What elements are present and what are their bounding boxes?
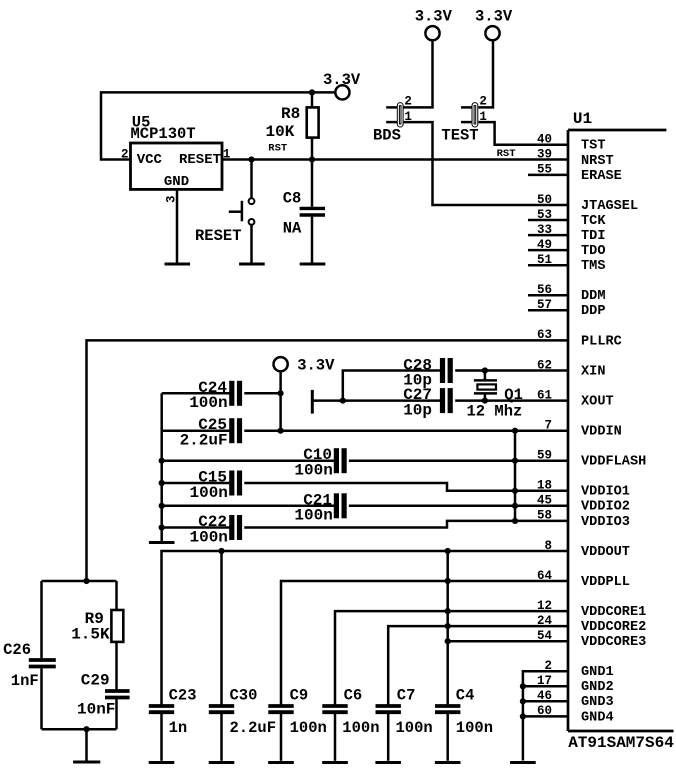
- wire VDDCORE vertical down to C4: [446, 551, 449, 705]
- wire TEST pin1 to chip TST pin 40: [478, 122, 568, 145]
- svg-text:50: 50: [537, 193, 552, 207]
- capacitor C29 10nF: [77, 642, 130, 729]
- jumper BDS: [373, 94, 412, 144]
- svg-text:C29: C29: [81, 672, 110, 690]
- ground (GND pins): [510, 761, 536, 764]
- unconnected pin stubs (ERASE,TCK,TDI,TDO,TMS,DDM,DDP): [528, 175, 568, 310]
- svg-text:TST: TST: [581, 139, 605, 154]
- power 3.3V (BDS): [415, 8, 453, 41]
- wire VCC: 3.3V rail to U5 VCC pin 2: [101, 92, 312, 159]
- svg-text:AT91SAM7S64: AT91SAM7S64: [568, 734, 674, 752]
- IC U1 AT91SAM7S64: [537, 110, 674, 752]
- svg-text:RESET: RESET: [195, 227, 242, 245]
- svg-text:100n: 100n: [189, 484, 227, 502]
- svg-text:GND: GND: [164, 174, 189, 190]
- svg-text:100n: 100n: [396, 719, 433, 737]
- crystal Q1 12 Mhz: [467, 371, 523, 421]
- wire GND1-GND4: chip pins 2,17,46,60 to ground: [523, 671, 568, 760]
- capacitor C22 100n / wire VDDIO3 to chip pin 58: [162, 513, 568, 546]
- svg-text:VDDPLL: VDDPLL: [581, 575, 630, 590]
- capacitor C7 100n: [376, 687, 433, 761]
- svg-text:2: 2: [404, 94, 412, 108]
- capacitor C4 100n: [435, 687, 493, 761]
- wire VDDCORE1: chip pin 12 to C6: [335, 611, 568, 704]
- wire VDDPLL: chip pin 64 to C9: [281, 581, 568, 705]
- svg-text:RESET: RESET: [179, 152, 221, 168]
- capacitor C30 2.2uF: [209, 551, 276, 761]
- wire RC filter top rail: [42, 580, 117, 583]
- ground (RC filter): [73, 761, 100, 764]
- junction (VDDCORE vertical / VDDCORE3): [445, 638, 451, 644]
- capacitor C6 100n: [322, 687, 379, 761]
- ground (RESET button): [239, 263, 265, 266]
- svg-text:RST: RST: [268, 143, 287, 155]
- svg-text:39: 39: [537, 148, 552, 162]
- svg-text:GND2: GND2: [581, 680, 614, 695]
- svg-text:MCP130T: MCP130T: [131, 125, 196, 143]
- svg-text:100n: 100n: [189, 394, 227, 412]
- junction (VDDCORE vertical / VDDCORE1): [445, 608, 451, 614]
- junction (R8 / C8): [309, 156, 315, 162]
- capacitor C27 10p: [403, 386, 450, 419]
- svg-text:ERASE: ERASE: [581, 169, 622, 184]
- wire XIN: chip pin 62 to C28/crystal: [343, 371, 568, 401]
- svg-text:100n: 100n: [294, 507, 332, 525]
- capacitor C8 NA: [283, 160, 325, 263]
- junction (RC bottom / ground): [83, 726, 89, 732]
- wire PLLRC: chip pin 63 to RC filter: [87, 340, 569, 581]
- junction (XIN / crystal): [482, 367, 488, 373]
- junction (VDDFLASH / VDD vertical): [512, 458, 518, 464]
- wire XOUT: chip pin 61 to C27/crystal: [312, 399, 568, 402]
- svg-text:VDDIO2: VDDIO2: [581, 500, 630, 515]
- svg-text:DDP: DDP: [581, 304, 605, 319]
- wire GND bus (left of decoupling caps): [160, 393, 163, 541]
- junction (C25 / 3.3V): [278, 428, 284, 434]
- junction (reset button): [248, 156, 254, 162]
- junction (C24 / 3.3V): [278, 390, 284, 396]
- svg-text:GND3: GND3: [581, 695, 614, 710]
- svg-text:VDDIO1: VDDIO1: [581, 485, 630, 500]
- junction (GND3): [520, 698, 526, 704]
- svg-text:2: 2: [121, 148, 129, 162]
- svg-text:TDI: TDI: [581, 229, 605, 244]
- svg-text:3.3V: 3.3V: [415, 8, 453, 26]
- ground (C8): [300, 263, 326, 266]
- wire 3.3V down to C24/C25 rows: [279, 371, 282, 431]
- junction (VDDCORE vertical / VDDPLL): [445, 578, 451, 584]
- junction (XOUT / C27-C28 ground leg): [340, 398, 346, 404]
- wire VDD vertical (ties VDDIN..VDDIO3): [514, 431, 517, 521]
- svg-text:Q1: Q1: [504, 386, 523, 404]
- svg-text:100n: 100n: [189, 528, 227, 546]
- ground (C4): [435, 761, 461, 764]
- junction (R8 top / 3.3V rail): [309, 89, 315, 95]
- power 3.3V (TEST): [475, 8, 513, 41]
- capacitor C10 100n / wire VDDFLASH to chip pin 59: [162, 446, 568, 479]
- wire NRST net: U5 RESET pin to chip pin 39: [222, 158, 568, 161]
- svg-text:GND4: GND4: [581, 710, 614, 725]
- power 3.3V supply symbol (R8 top): [312, 71, 361, 100]
- svg-text:VDDCORE1: VDDCORE1: [581, 605, 646, 620]
- junction (VDDIO1 / VDD vertical): [512, 488, 518, 494]
- svg-text:C30: C30: [230, 687, 258, 705]
- wire VDDCORE2: chip pin 24 to C7: [388, 626, 568, 704]
- svg-text:10nF: 10nF: [77, 701, 115, 719]
- svg-text:TDO: TDO: [581, 244, 605, 259]
- ground (C9): [268, 761, 294, 764]
- svg-text:3.3V: 3.3V: [297, 357, 335, 375]
- capacitor C21 100n / wire VDDIO2 to chip pin 45: [162, 491, 568, 524]
- svg-text:NRST: NRST: [581, 154, 614, 169]
- ground (U5): [165, 263, 191, 266]
- svg-text:C23: C23: [169, 687, 197, 705]
- junction (VDDIN / VDD vertical): [512, 428, 518, 434]
- svg-text:XOUT: XOUT: [581, 395, 614, 410]
- wire RC filter to ground: [85, 729, 88, 760]
- svg-text:12 Mhz: 12 Mhz: [467, 403, 523, 421]
- svg-text:1nF: 1nF: [11, 672, 39, 690]
- junction (C30 / VDDOUT): [218, 548, 224, 554]
- wire BDS pin1 to chip JTAGSEL pin 50: [404, 122, 569, 205]
- svg-text:3.3V: 3.3V: [323, 71, 361, 89]
- junction (XOUT / crystal): [482, 398, 488, 404]
- svg-text:VDDCORE3: VDDCORE3: [581, 635, 646, 650]
- svg-text:RST: RST: [497, 148, 516, 160]
- junction (VDDIO3 / VDD vertical): [512, 518, 518, 524]
- svg-text:R8: R8: [281, 105, 300, 123]
- wire VDDCORE3: chip pin 54 to VDDCORE vertical: [448, 640, 568, 643]
- svg-text:C6: C6: [344, 687, 363, 705]
- resistor R9 1.5K: [71, 581, 123, 644]
- junction (C15 / bus): [159, 480, 165, 486]
- capacitor C9 100n: [268, 687, 327, 761]
- ground (C30): [209, 761, 235, 764]
- svg-text:C9: C9: [290, 687, 309, 705]
- junction (GND4): [520, 713, 526, 719]
- capacitor C24 100n: [162, 379, 281, 412]
- junction (C21 / bus): [159, 503, 165, 509]
- capacitor C15 100n / wire VDDIO1 to chip pin 18: [162, 469, 568, 502]
- svg-text:100n: 100n: [456, 719, 493, 737]
- junction (C10 / bus): [159, 458, 165, 464]
- svg-text:TMS: TMS: [581, 259, 605, 274]
- wire U5 GND pin 3 to ground: [176, 189, 179, 262]
- svg-text:C7: C7: [397, 687, 416, 705]
- junction (GND2): [520, 683, 526, 689]
- svg-text:VDDIO3: VDDIO3: [581, 515, 630, 530]
- svg-text:VDDFLASH: VDDFLASH: [581, 455, 646, 470]
- svg-text:100n: 100n: [342, 719, 379, 737]
- svg-text:TCK: TCK: [581, 214, 606, 229]
- wire RC filter bottom rail: [42, 728, 117, 731]
- svg-text:C8: C8: [283, 190, 302, 208]
- ground (C23): [149, 761, 175, 764]
- svg-text:2.2uF: 2.2uF: [180, 432, 228, 450]
- junction (VDDCORE vertical / VDDCORE2): [445, 623, 451, 629]
- ground (bus): [149, 541, 175, 544]
- svg-text:100n: 100n: [290, 719, 327, 737]
- pushbutton RESET: [195, 160, 254, 263]
- svg-text:U1: U1: [573, 110, 592, 128]
- svg-text:NA: NA: [283, 220, 302, 238]
- wire VDDOUT: chip pin 8 to C23/C30: [162, 551, 569, 705]
- power 3.3V (VDD rail): [274, 357, 336, 375]
- capacitor C25 2.2uF / wire VDDIN to chip pin 7: [162, 416, 568, 449]
- svg-text:10K: 10K: [265, 123, 294, 141]
- resistor R8 10K: [265, 92, 318, 159]
- junction (PLLRC / R9 / C26): [83, 578, 89, 584]
- svg-text:VDDIN: VDDIN: [581, 425, 622, 440]
- svg-text:PLLRC: PLLRC: [581, 334, 622, 349]
- svg-text:JTAGSEL: JTAGSEL: [581, 199, 638, 214]
- junction (VDDCORE vertical / VDDOUT): [445, 548, 451, 554]
- svg-text:VCC: VCC: [137, 152, 163, 168]
- capacitor C26 1nF: [3, 581, 56, 729]
- capacitor C23 1n: [149, 687, 197, 761]
- wire TEST pin2 to 3.3V: [478, 40, 493, 107]
- svg-text:C4: C4: [456, 687, 475, 705]
- svg-text:VDDOUT: VDDOUT: [581, 545, 630, 560]
- IC U5 MCP130T reset supervisor: [121, 113, 230, 203]
- ground (C6): [322, 761, 348, 764]
- capacitor C28 10p: [403, 356, 450, 389]
- svg-text:XIN: XIN: [581, 364, 605, 379]
- svg-text:100n: 100n: [294, 462, 332, 480]
- svg-text:2: 2: [479, 94, 487, 108]
- junction (C22 / bus): [159, 524, 165, 530]
- svg-text:10p: 10p: [403, 401, 432, 419]
- junction (VDDIO2 / VDD vertical): [512, 503, 518, 509]
- wire BDS pin2 to 3.3V: [404, 40, 433, 107]
- svg-text:VDDCORE2: VDDCORE2: [581, 620, 646, 635]
- svg-text:DDM: DDM: [581, 289, 605, 304]
- svg-text:1n: 1n: [169, 719, 188, 737]
- ground (crystal load caps, rotated): [311, 390, 314, 414]
- svg-text:40: 40: [537, 133, 552, 147]
- svg-text:C26: C26: [3, 641, 31, 659]
- jumper TEST: [441, 94, 487, 144]
- svg-text:TEST: TEST: [441, 127, 478, 145]
- svg-text:3.3V: 3.3V: [475, 8, 513, 26]
- svg-text:1.5K: 1.5K: [71, 626, 110, 644]
- ground (C7): [375, 761, 401, 764]
- svg-text:2.2uF: 2.2uF: [230, 719, 277, 737]
- svg-text:GND1: GND1: [581, 665, 614, 680]
- svg-text:BDS: BDS: [373, 127, 401, 145]
